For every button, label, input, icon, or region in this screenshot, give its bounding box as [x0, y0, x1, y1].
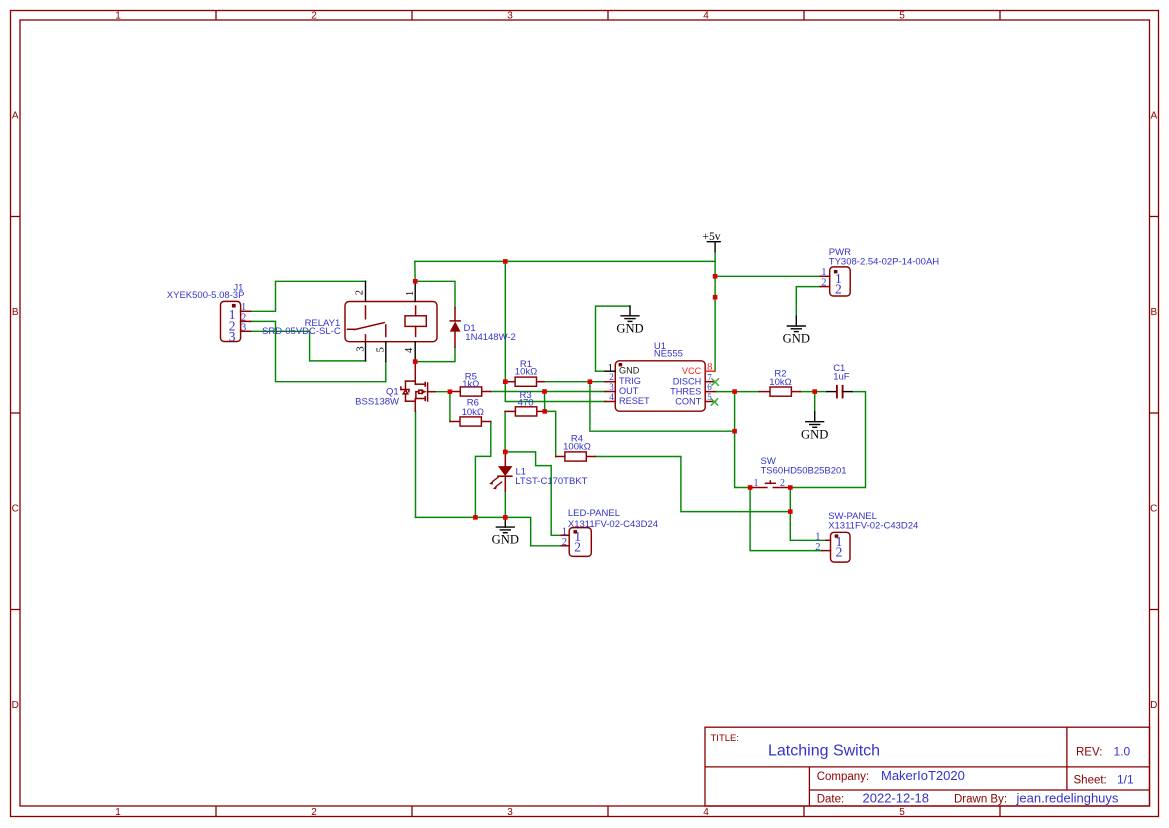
svg-text:4: 4: [703, 807, 709, 818]
svg-text:1.0: 1.0: [1114, 744, 1131, 758]
junction L1 anode node: [503, 450, 508, 455]
wire OUT to R3.2 node: [544, 392, 546, 412]
svg-text:2: 2: [562, 537, 567, 548]
resistor R5 1k: [450, 371, 491, 396]
wire R2.2 to C1 node: [800, 391, 815, 393]
svg-text:10kΩ: 10kΩ: [769, 377, 791, 388]
svg-text:jean.redelinghuys: jean.redelinghuys: [1016, 790, 1119, 805]
svg-text:B: B: [12, 307, 19, 318]
svg-text:Company:: Company:: [817, 771, 869, 783]
connector PWR TY308-2.54-02P-14-00AH: [820, 247, 939, 297]
junction TRIG branch: [588, 379, 593, 384]
svg-text:XYEK500-5.08-3P: XYEK500-5.08-3P: [167, 290, 245, 301]
junction +5v vertical: [713, 295, 718, 300]
svg-text:3: 3: [229, 329, 236, 344]
svg-text:2: 2: [835, 282, 842, 297]
svg-text:B: B: [1150, 307, 1157, 318]
svg-text:LED-PANEL: LED-PANEL: [568, 508, 620, 519]
svg-text:1: 1: [754, 478, 759, 489]
connector J1 XYEK500-5.08-3P: [167, 283, 251, 345]
svg-text:TITLE:: TITLE:: [711, 733, 740, 744]
switch SW TS60HD50B25B201: [750, 456, 846, 489]
svg-text:2: 2: [609, 372, 614, 382]
wire rail to RELAY1 pin1: [414, 261, 416, 281]
resistor R4 100k: [556, 434, 596, 461]
svg-text:CONT: CONT: [675, 397, 701, 407]
junction OUT/R3 branch: [542, 389, 547, 394]
svg-text:X1311FV-02-C43D24: X1311FV-02-C43D24: [828, 521, 918, 532]
svg-text:RESET: RESET: [619, 396, 650, 406]
wire +5v rail: [415, 260, 715, 262]
wire C1.2 to SW.2: [790, 392, 865, 488]
svg-text:3: 3: [507, 11, 513, 22]
svg-text:1: 1: [821, 267, 826, 278]
svg-text:X1311FV-02-C43D24: X1311FV-02-C43D24: [568, 519, 658, 530]
svg-text:6: 6: [707, 382, 712, 392]
wire Q1 gate to node: [435, 391, 450, 393]
svg-text:2: 2: [355, 290, 366, 295]
ground at LED rail: [492, 517, 519, 546]
svg-text:2: 2: [780, 478, 785, 489]
svg-text:100kΩ: 100kΩ: [563, 442, 591, 453]
svg-text:1kΩ: 1kΩ: [462, 379, 479, 390]
junction +5v/PWR.1: [713, 274, 718, 279]
svg-text:1uF: 1uF: [833, 371, 850, 382]
svg-text:LTST-C170TBKT: LTST-C170TBKT: [515, 476, 587, 487]
wire OUT net R5.2 to U1.3: [491, 391, 606, 393]
svg-text:1: 1: [115, 807, 121, 818]
junction GND rail/R6: [473, 515, 478, 520]
svg-text:2: 2: [815, 542, 820, 553]
wire U1.6 THRES to node: [716, 391, 735, 393]
resistor R6 10k: [450, 398, 491, 427]
svg-text:D: D: [1150, 700, 1157, 711]
wire SW.1 to SW-PANEL.2: [750, 488, 822, 551]
wire U1.1 to ground: [596, 306, 631, 371]
junction R3.2/R4 branch: [542, 409, 547, 414]
svg-text:4: 4: [609, 392, 614, 402]
svg-text:2: 2: [821, 278, 826, 289]
svg-text:10kΩ: 10kΩ: [515, 367, 537, 378]
svg-text:4: 4: [703, 11, 709, 22]
svg-text:C: C: [1150, 504, 1157, 515]
svg-text:TRIG: TRIG: [619, 376, 641, 386]
svg-text:GND: GND: [783, 332, 810, 346]
svg-text:3: 3: [609, 382, 614, 392]
title block: [705, 727, 1150, 806]
wire J1.1 to RELAY1.2: [251, 281, 366, 311]
svg-text:1: 1: [562, 526, 567, 537]
svg-text:THRES: THRES: [670, 387, 701, 397]
power flag +5v: [703, 231, 721, 251]
svg-text:3: 3: [355, 346, 366, 351]
svg-text:Sheet:: Sheet:: [1074, 775, 1107, 787]
junction +5v rail/R1 branch: [503, 259, 508, 264]
wire C1 node to ground: [814, 392, 816, 412]
svg-text:DISCH: DISCH: [673, 377, 702, 387]
svg-text:3: 3: [507, 807, 513, 818]
svg-text:VCC: VCC: [682, 366, 702, 376]
svg-text:2: 2: [311, 11, 317, 22]
svg-text:1: 1: [815, 532, 820, 543]
svg-text:2: 2: [836, 545, 843, 560]
svg-text:A: A: [1150, 111, 1157, 122]
svg-text:3: 3: [241, 323, 246, 334]
wire R6.2 to GND rail: [475, 422, 490, 518]
svg-text:10kΩ: 10kΩ: [462, 407, 484, 418]
svg-text:7: 7: [707, 372, 712, 382]
svg-text:8: 8: [707, 361, 713, 373]
wire THRES node to SW.1: [735, 392, 751, 488]
junction R2.2/C1/GND: [812, 389, 817, 394]
junction relay pin1/D1/+5v: [413, 279, 418, 284]
resistor R2 10k: [760, 368, 801, 396]
junction TRIG/SW branch: [732, 429, 737, 434]
resistor R1 10k: [505, 359, 544, 386]
resistor R3 470: [505, 390, 545, 416]
junction THRES/R2.1: [732, 389, 737, 394]
svg-text:A: A: [12, 111, 19, 122]
wire J1.2 to RELAY1.5: [251, 321, 386, 381]
svg-text:1: 1: [115, 11, 121, 22]
wire R1.2 to TRIG U1.2: [544, 381, 605, 383]
svg-text:5: 5: [376, 347, 387, 352]
svg-text:2022-12-18: 2022-12-18: [863, 790, 930, 805]
wire RELAY1.5 pin extension: [385, 362, 387, 382]
wire +5v flag to U1.8 VCC: [714, 252, 716, 372]
svg-text:Latching Switch: Latching Switch: [768, 743, 880, 760]
svg-text:5: 5: [899, 807, 905, 818]
ground near PWR: [783, 316, 810, 345]
svg-text:NE555: NE555: [654, 348, 683, 359]
svg-text:TS60HD50B25B201: TS60HD50B25B201: [761, 465, 847, 476]
wire L1 cathode to GND rail: [504, 491, 506, 517]
connector LED-PANEL X1311FV-02-C43D24: [561, 508, 658, 556]
connector SW-PANEL X1311FV-02-C43D24: [815, 511, 918, 562]
wire SW.2 node to SW-PANEL.1: [790, 488, 826, 541]
svg-text:D: D: [12, 700, 19, 711]
svg-text:5: 5: [899, 11, 905, 22]
wire L1 anode to LED-PANEL.1: [505, 452, 561, 535]
svg-text:REV:: REV:: [1076, 746, 1102, 758]
svg-text:470: 470: [518, 398, 534, 409]
svg-text:2: 2: [574, 540, 581, 555]
wire node to C1.1: [815, 391, 827, 393]
wire D1 anode to RELAY1 pin4 node: [415, 347, 455, 362]
wire GND rail to LED-PANEL.2: [416, 517, 562, 545]
op-amp U1 NE555 timer: [605, 341, 716, 411]
wire PWR.2 to ground: [796, 287, 820, 317]
svg-text:OUT: OUT: [619, 386, 639, 396]
wire TRIG to SW node: [590, 382, 735, 432]
junction Q1 gate/R5/R6: [448, 389, 453, 394]
ground near C1: [801, 412, 828, 441]
wire +5v to R1.1 and RESET U1.4: [505, 261, 605, 401]
wire U1.1 segment: [596, 370, 606, 372]
svg-text:2: 2: [311, 807, 317, 818]
wire Q1 source to GND rail: [415, 411, 417, 517]
wire THRES node to R2.1: [735, 391, 760, 393]
svg-text:1: 1: [405, 291, 416, 296]
junction SW.1 node: [748, 485, 753, 490]
wire +5v to PWR.1: [715, 275, 820, 277]
svg-text:1/1: 1/1: [1117, 773, 1134, 787]
LED L1 LTST-C170TBKT: [489, 452, 587, 491]
svg-text:GND: GND: [492, 533, 519, 547]
svg-text:GND: GND: [801, 427, 828, 441]
svg-text:TY308-2.54-02P-14-00AH: TY308-2.54-02P-14-00AH: [829, 257, 940, 268]
wire R4.2 to SW-PANEL node: [595, 457, 790, 512]
svg-text:Date:: Date:: [817, 793, 845, 805]
svg-text:GND: GND: [616, 321, 643, 335]
no-connect X U1 pin7: [711, 378, 719, 386]
svg-text:BSS138W: BSS138W: [355, 396, 399, 407]
svg-text:GND: GND: [619, 365, 640, 375]
wire R3.1 to L1 anode: [504, 411, 506, 452]
wire J1.3 to RELAY1.3: [251, 331, 366, 361]
svg-text:4: 4: [404, 347, 415, 353]
transistor Q1 BSS138W: [355, 362, 435, 412]
svg-text:MakerIoT2020: MakerIoT2020: [881, 768, 965, 783]
ground near U1 pin1: [616, 306, 643, 335]
svg-text:5: 5: [707, 392, 712, 402]
no-connect X U1 pin5: [711, 398, 719, 406]
svg-text:Drawn By:: Drawn By:: [954, 793, 1007, 805]
relay RELAY1 SRD-05VDC-SL-C: [262, 281, 437, 361]
junction R1.1 tap: [503, 379, 508, 384]
svg-text:1N4148W-2: 1N4148W-2: [465, 332, 516, 343]
wire RELAY1 pin1 to D1 cathode: [415, 281, 455, 308]
svg-text:SRD-05VDC-SL-C: SRD-05VDC-SL-C: [262, 326, 341, 337]
wire gate node to R6.1: [449, 392, 451, 422]
wire R3.2 node to R4.1: [545, 411, 556, 456]
svg-text:C: C: [12, 504, 19, 515]
junction GND rail/L1: [503, 515, 508, 520]
capacitor C1 1uF: [827, 363, 852, 398]
diode D1 1N4148W-2: [450, 308, 516, 347]
junction relay pin4/D1/Q1 drain: [413, 359, 418, 364]
junction R4/SW-PANEL.1 node: [788, 509, 793, 514]
junction SW.2 node: [788, 485, 793, 490]
